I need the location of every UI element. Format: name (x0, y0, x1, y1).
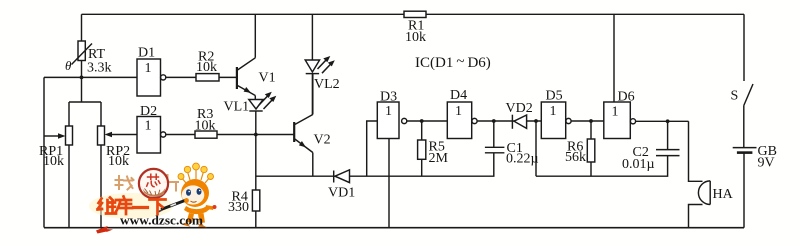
svg-text:VD2: VD2 (506, 101, 533, 116)
svg-text:D4: D4 (450, 88, 467, 103)
svg-text:1: 1 (455, 104, 462, 119)
svg-text:3.3k: 3.3k (87, 61, 112, 76)
svg-text:330: 330 (228, 200, 249, 215)
svg-text:0.22µ: 0.22µ (506, 152, 539, 167)
svg-text:V1: V1 (259, 71, 276, 86)
svg-text:S: S (731, 89, 739, 104)
svg-text:10k: 10k (43, 154, 64, 169)
svg-text:θ: θ (65, 58, 72, 73)
svg-text:HA: HA (713, 187, 734, 202)
svg-text:D3: D3 (380, 90, 397, 105)
svg-text:D1: D1 (138, 46, 155, 61)
svg-text:1: 1 (385, 104, 392, 119)
svg-text:VL2: VL2 (314, 77, 340, 92)
svg-text:0.01µ: 0.01µ (622, 157, 655, 172)
svg-text:www.dzsc.com: www.dzsc.com (120, 213, 203, 228)
svg-text:1: 1 (550, 104, 557, 119)
svg-text:1: 1 (145, 61, 152, 76)
svg-text:D2: D2 (140, 104, 157, 119)
svg-text:IC(D1~D6): IC(D1~D6) (415, 54, 491, 71)
svg-text:1: 1 (145, 119, 152, 134)
svg-text:9V: 9V (758, 156, 775, 171)
svg-text:D5: D5 (546, 89, 563, 104)
svg-text:10k: 10k (108, 154, 129, 169)
svg-text:2M: 2M (429, 151, 449, 166)
svg-text:VL1: VL1 (224, 100, 250, 115)
svg-text:10k: 10k (196, 60, 217, 75)
svg-text:56k: 56k (565, 150, 586, 165)
svg-text:10k: 10k (195, 119, 216, 134)
svg-text:V2: V2 (314, 133, 331, 148)
svg-text:D6: D6 (618, 90, 635, 105)
svg-text:VD1: VD1 (328, 186, 355, 201)
svg-text:1: 1 (612, 105, 619, 120)
svg-text:10k: 10k (405, 30, 426, 45)
